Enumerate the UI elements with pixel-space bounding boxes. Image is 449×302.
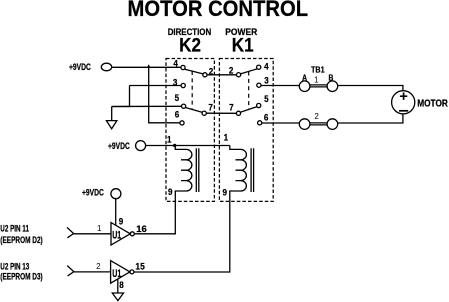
svg-text:+9VDC: +9VDC [82, 187, 104, 197]
svg-text:MOTOR: MOTOR [417, 98, 448, 109]
svg-text:TB1: TB1 [311, 65, 325, 74]
svg-text:U2 PIN 11: U2 PIN 11 [0, 223, 29, 233]
svg-text:U1: U1 [112, 229, 121, 241]
svg-text:6: 6 [264, 112, 269, 123]
svg-text:B: B [329, 73, 334, 83]
svg-text:+9VDC: +9VDC [69, 62, 91, 72]
svg-text:4: 4 [264, 61, 269, 72]
svg-text:3: 3 [173, 77, 178, 88]
svg-text:7: 7 [208, 102, 213, 113]
svg-text:K1: K1 [232, 35, 254, 56]
svg-text:9: 9 [119, 216, 124, 227]
svg-text:(EEPROM D2): (EEPROM D2) [0, 235, 43, 245]
svg-text:2: 2 [96, 262, 101, 271]
svg-text:3: 3 [264, 75, 269, 86]
svg-text:1: 1 [224, 132, 229, 143]
svg-text:9: 9 [168, 186, 173, 197]
svg-text:+9VDC: +9VDC [108, 141, 130, 151]
svg-text:6: 6 [175, 109, 180, 120]
svg-text:5: 5 [264, 93, 269, 104]
svg-text:U1: U1 [112, 268, 121, 280]
svg-text:15: 15 [135, 261, 144, 272]
svg-text:7: 7 [229, 102, 234, 113]
svg-text:2: 2 [209, 66, 214, 77]
svg-text:2: 2 [229, 65, 234, 76]
svg-text:MOTOR CONTROL: MOTOR CONTROL [128, 0, 309, 21]
svg-text:5: 5 [175, 92, 180, 103]
svg-text:U2 PIN 13: U2 PIN 13 [0, 262, 30, 272]
svg-text:1: 1 [167, 134, 172, 145]
svg-text:A: A [302, 73, 307, 83]
svg-text:K2: K2 [179, 35, 201, 56]
svg-text:(EEPROM D3): (EEPROM D3) [0, 271, 43, 281]
svg-text:4: 4 [173, 58, 178, 69]
svg-text:1: 1 [314, 75, 319, 84]
svg-text:8: 8 [119, 279, 124, 290]
svg-text:2: 2 [314, 112, 319, 121]
svg-text:9: 9 [223, 187, 228, 198]
svg-text:1: 1 [97, 224, 102, 233]
svg-text:16: 16 [136, 224, 147, 235]
